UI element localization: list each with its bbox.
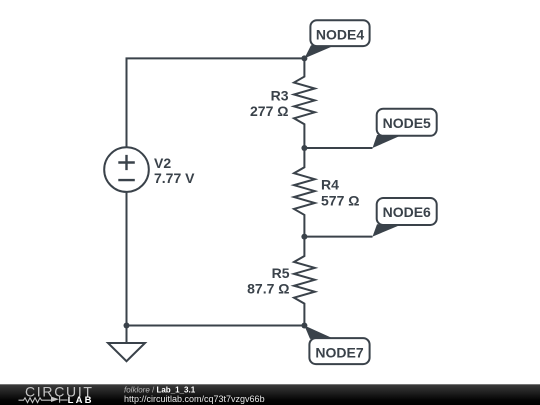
wire: left vertical below V2 down to ground junction: [126, 192, 128, 343]
ground symbol: [108, 343, 145, 361]
svg-text:NODE4: NODE4: [316, 26, 364, 42]
resistor R3: [294, 58, 315, 148]
svg-text:277 Ω: 277 Ω: [250, 103, 288, 119]
wire: bottom horizontal from ground junction to NODE7 junction: [127, 325, 305, 327]
resistor R4: [294, 148, 315, 237]
svg-text:R4: R4: [321, 177, 339, 193]
footer bar: [0, 384, 540, 405]
V2 minus sign: [118, 179, 135, 181]
junction dot NODE6: [301, 234, 307, 240]
junction dot NODE5: [301, 145, 307, 151]
svg-text:R3: R3: [271, 88, 289, 104]
tag pointer NODE7: [304, 326, 334, 339]
node tag box NODE5: [377, 109, 437, 136]
CircuitLab logo resistor-diode squiggle: [19, 396, 68, 403]
node tag box NODE4: [310, 20, 369, 46]
svg-text:NODE5: NODE5: [383, 115, 431, 131]
svg-text:V2: V2: [154, 155, 171, 171]
voltage source V2 circle: [104, 147, 149, 192]
wire: top horizontal from V2 to NODE4 junction: [127, 58, 305, 147]
wire: stub from NODE6 junction to tag pointer: [304, 236, 372, 238]
junction dot ground-left: [124, 323, 130, 329]
svg-text:R5: R5: [272, 265, 290, 281]
V2 plus sign: [118, 155, 135, 170]
svg-text:577 Ω: 577 Ω: [321, 193, 359, 209]
svg-text:87.7 Ω: 87.7 Ω: [247, 281, 289, 297]
svg-text:NODE6: NODE6: [383, 204, 431, 220]
resistor R5: [294, 237, 315, 326]
tag pointer NODE4: [304, 45, 335, 58]
junction dot NODE7: [301, 323, 307, 329]
node tag box NODE7: [309, 338, 369, 364]
svg-text:7.77 V: 7.77 V: [154, 170, 195, 186]
wire: stub from NODE5 junction to tag pointer: [304, 147, 372, 149]
svg-text:NODE7: NODE7: [315, 344, 363, 360]
tag pointer NODE6: [373, 224, 403, 236]
junction dot NODE4: [301, 55, 307, 61]
node tag box NODE6: [377, 198, 437, 225]
svg-text:LAB: LAB: [68, 395, 94, 405]
svg-text:http://circuitlab.com/cq73t7vz: http://circuitlab.com/cq73t7vzgv66b: [124, 394, 265, 404]
CircuitLab logo diode triangle: [51, 397, 59, 403]
tag pointer NODE5: [373, 135, 403, 148]
